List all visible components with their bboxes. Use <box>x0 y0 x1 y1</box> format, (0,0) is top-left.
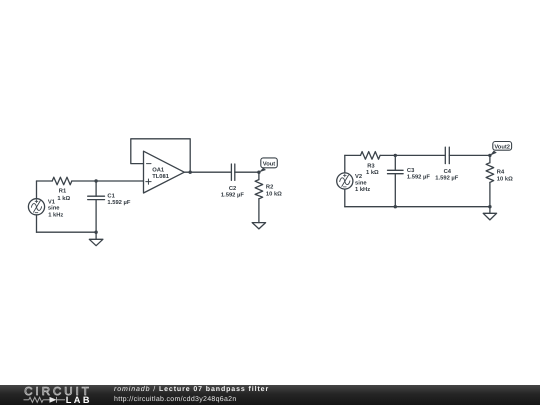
net flag Vout2 <box>490 142 512 156</box>
footer title line <box>114 386 269 393</box>
node junction C3 bottom <box>394 205 397 208</box>
voltage source V2 <box>337 173 353 189</box>
svg-text:Vout2: Vout2 <box>494 143 510 150</box>
svg-text:1.592 µF: 1.592 µF <box>221 192 244 199</box>
svg-text:R2: R2 <box>266 184 273 191</box>
svg-text:R3: R3 <box>367 162 375 169</box>
wire top left <box>37 180 53 182</box>
wire R3 to C4 <box>380 154 445 156</box>
wire R2 to ground <box>258 199 260 223</box>
svg-text:LAB: LAB <box>66 394 92 404</box>
svg-text:1 kΩ: 1 kΩ <box>366 169 379 176</box>
wire C2 to Vout node <box>235 171 259 173</box>
wire V1 bottom lead <box>36 215 38 232</box>
svg-text:TL081: TL081 <box>152 173 170 180</box>
wire op-amp output <box>184 171 231 173</box>
svg-text:R1: R1 <box>59 189 67 195</box>
svg-text:1 kΩ: 1 kΩ <box>57 195 70 202</box>
svg-text:C3: C3 <box>407 167 415 174</box>
ground <box>89 232 103 246</box>
svg-text:sine: sine <box>355 179 367 186</box>
node junction R1/C1 <box>94 179 97 182</box>
resistor R1 <box>52 177 72 185</box>
CircuitLab logo <box>0 385 100 405</box>
net flag Vout <box>259 158 277 173</box>
node junction Vout2 <box>488 154 491 157</box>
svg-text:1 kHz: 1 kHz <box>48 212 63 219</box>
node junction bottom rail <box>94 231 97 234</box>
svg-text:C2: C2 <box>229 185 236 192</box>
capacitor C1 <box>88 181 105 232</box>
wire R4 to bottom rail <box>489 182 491 206</box>
svg-text:C4: C4 <box>444 168 452 175</box>
svg-text:C1: C1 <box>107 193 115 200</box>
wire V2 top lead <box>344 155 346 173</box>
node junction R4 bottom <box>488 205 491 208</box>
capacitor C2 <box>231 164 234 180</box>
resistor R4 <box>486 155 494 182</box>
svg-text:1.592 µF: 1.592 µF <box>435 174 458 181</box>
svg-text:10 kΩ: 10 kΩ <box>497 175 513 182</box>
resistor R2 <box>255 172 263 199</box>
svg-text:Vout: Vout <box>263 162 276 168</box>
wire V1 top lead <box>36 181 38 199</box>
svg-text:R4: R4 <box>497 170 505 176</box>
capacitor C4 <box>445 147 449 163</box>
svg-text:V2: V2 <box>355 173 362 180</box>
node junction output/feedback <box>189 171 192 174</box>
wire bottom rail right circuit <box>345 206 490 208</box>
svg-text:V1: V1 <box>48 199 56 205</box>
voltage source V1 <box>28 199 44 215</box>
wire R1 to op-amp + input <box>72 180 144 182</box>
svg-text:1.592 µF: 1.592 µF <box>107 199 130 206</box>
wire feedback loop <box>131 139 190 172</box>
ground <box>483 207 496 220</box>
svg-text:OA1: OA1 <box>152 167 165 174</box>
resistor R3 <box>361 152 381 160</box>
wire V2 bottom lead <box>344 189 346 207</box>
footer url line <box>114 396 237 403</box>
svg-text:1.592 µF: 1.592 µF <box>407 173 430 180</box>
node junction Vout <box>257 171 260 174</box>
svg-text:sine: sine <box>48 205 60 212</box>
footer bar <box>0 385 540 405</box>
wire top left right circuit <box>345 154 361 156</box>
op-amp OA1 <box>144 151 185 193</box>
svg-text:10 kΩ: 10 kΩ <box>266 191 282 198</box>
wire C4 to Vout2 node <box>449 154 490 156</box>
wire bottom rail left circuit <box>37 231 97 233</box>
node junction R3/C3 <box>394 154 397 157</box>
capacitor C3 <box>388 155 404 206</box>
ground <box>252 223 265 229</box>
svg-text:1 kHz: 1 kHz <box>355 186 370 193</box>
